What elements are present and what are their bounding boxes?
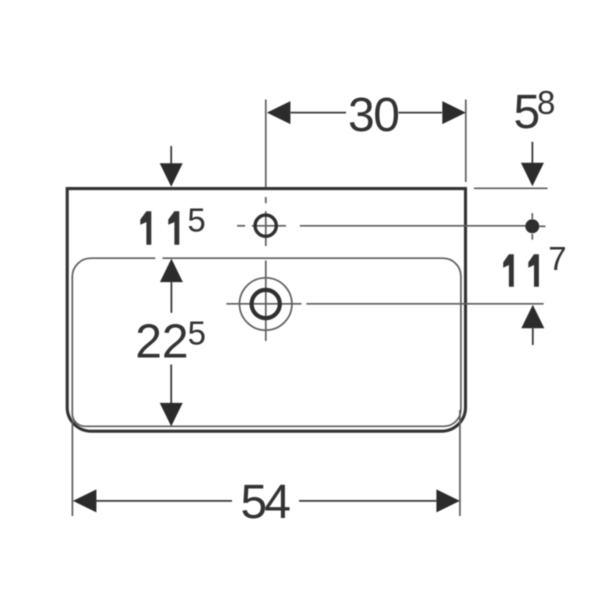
svg-text:8: 8 — [537, 84, 555, 121]
svg-text:54: 54 — [241, 476, 291, 529]
svg-text:30: 30 — [348, 89, 398, 142]
svg-text:7: 7 — [548, 240, 566, 277]
svg-text:22: 22 — [135, 315, 188, 368]
svg-text:5: 5 — [187, 201, 205, 238]
svg-text:5: 5 — [188, 314, 206, 351]
